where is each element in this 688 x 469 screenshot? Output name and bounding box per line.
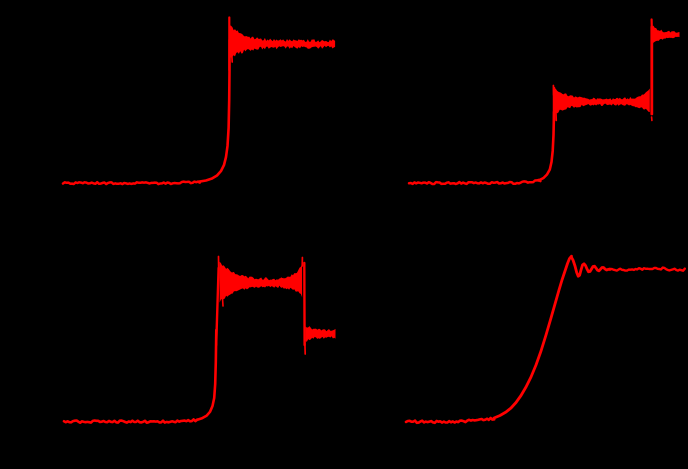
top-left: baseline — [63, 182, 200, 185]
bottom-left: baseline — [64, 419, 197, 422]
bottom-left: under spike — [222, 298, 225, 306]
top-right: top level envelope — [652, 26, 679, 45]
top-left: knee — [198, 40, 230, 182]
bottom-right: s-curve rise — [494, 256, 610, 418]
bottom-left: plateau ringing envelope — [220, 262, 284, 303]
top-right: baseline — [409, 180, 540, 184]
top-right: rise spike — [552, 86, 554, 96]
top-right: plateau ringing envelope — [555, 88, 617, 114]
top-right: step2 spikes — [651, 117, 653, 121]
bottom-left: pre-drop ringing — [280, 264, 302, 297]
top-right: pre-step ringing — [616, 89, 650, 113]
bottom-left: rise line — [216, 268, 218, 345]
bottom-right: baseline — [406, 418, 494, 423]
bottom-left: knee — [197, 330, 216, 420]
bottom-left: drop spike up — [301, 258, 303, 267]
bottom-left: lower level envelope — [306, 326, 336, 342]
top-right: under spike — [555, 113, 557, 121]
bottom-left: rise spike — [218, 257, 220, 273]
bottom-right: settled level — [610, 268, 685, 271]
top-right: step2 vertical — [650, 27, 653, 114]
top-right: rise line — [553, 88, 556, 120]
bottom-left: drop under spike — [304, 340, 306, 354]
bottom-left: drop vertical — [303, 263, 306, 345]
top-right: knee — [539, 112, 555, 181]
top-left: under spike — [231, 55, 233, 62]
top-left: ringing envelope — [230, 25, 335, 57]
top-left: rise spike — [228, 18, 230, 71]
